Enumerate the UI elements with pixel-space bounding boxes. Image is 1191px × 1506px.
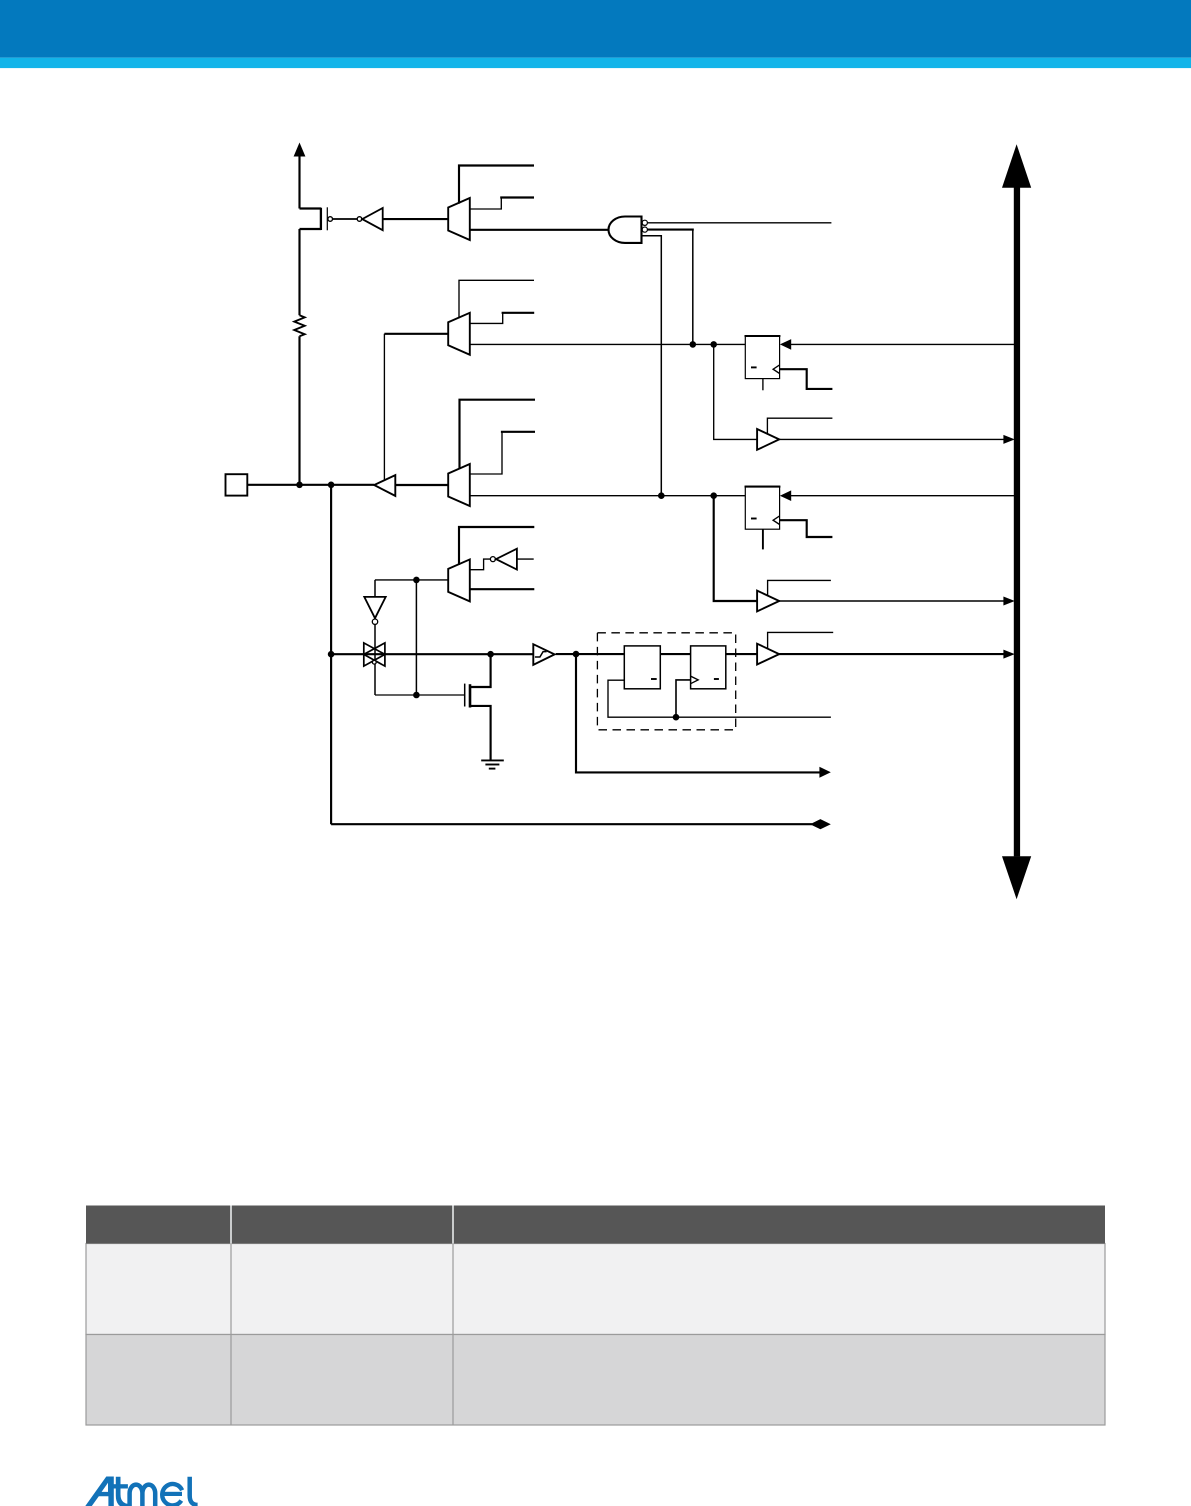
Atmel logo letter l: [190, 1477, 198, 1505]
transistor Q2 NMOS gate bar: [464, 684, 466, 707]
mux M3 input A step wire: [470, 432, 502, 474]
transistor Q1 gate bubble: [328, 217, 333, 222]
wire feedback up to D2 clock: [676, 680, 691, 717]
node junction row to buffer2: [710, 492, 717, 499]
wire row to buffer U8: [714, 496, 757, 601]
mux M1 select wire: [459, 166, 534, 204]
node junction NAND2-row: [690, 341, 697, 348]
wire bottom bidirectional line: [331, 823, 812, 825]
transistor Q1 PMOS drain arm: [300, 228, 322, 230]
analog switch SW1 right triangle: [364, 643, 385, 666]
wire FF1 D to bus: [791, 343, 1015, 345]
transistor Q1 PMOS pull-up source arm: [300, 207, 322, 209]
flip-flop FF2 bottom stub: [762, 529, 764, 549]
wire buffer U8 to bus: [779, 600, 1005, 602]
NAND input 3 wire: [642, 236, 662, 496]
VDD power arrow: [294, 143, 306, 209]
buffer U7 enable wire: [767, 418, 832, 434]
mux M2 input A step wire: [470, 313, 503, 324]
flip-flop D2 Q-bar dash: [714, 678, 719, 680]
flip-flop D2 box: [691, 646, 726, 689]
inverter U4 triangle: [496, 549, 517, 570]
table header divider 1: [230, 1206, 232, 1244]
mux M3: [448, 464, 470, 506]
flip-flop FF1 D input arrow: [780, 339, 791, 350]
inverter U5 output bubble: [372, 619, 377, 624]
node pad-resistor junction: [296, 482, 303, 489]
inverter U1 triangle: [362, 208, 383, 230]
flip-flop FF2 Q-bar dash: [751, 518, 757, 520]
table row 2 gray: [86, 1335, 1105, 1426]
wire buffer U9 to bus: [779, 653, 1005, 655]
NAND input bubble 2: [642, 227, 647, 232]
latch L1 Q-bar dash: [651, 678, 657, 680]
node junction NAND3-row: [658, 492, 665, 499]
mux M1 input A step wire: [470, 198, 502, 210]
schmitt trigger U6: [533, 644, 554, 665]
wire FF2 D to bus: [791, 495, 1015, 497]
mux M3 select wire: [460, 400, 536, 469]
Atmel logo letter A: [85, 1477, 114, 1506]
node gate wire junction: [413, 692, 420, 699]
NAND input bubble 1: [642, 220, 647, 225]
transistor Q2 NMOS channel bar: [469, 684, 472, 707]
flip-flop FF2 clock chevron: [773, 516, 780, 525]
header dark blue band: [0, 0, 1191, 58]
Atmel logo letter m: [130, 1485, 156, 1506]
diamond bidirectional terminal: [810, 819, 831, 829]
analog switch SW1 (bowtie) left triangle: [364, 643, 385, 666]
arrow PIO_PDSR output: [819, 767, 830, 778]
transistor Q2 source arm: [470, 706, 491, 760]
wire tap down to NMOS gate: [415, 580, 417, 695]
inverter U1 output bubble: [357, 217, 362, 222]
transistor Q1 PMOS channel bar: [320, 208, 322, 230]
table header band: [86, 1206, 1105, 1244]
NAND gate U2 (mirrored, bubbled inputs): [609, 217, 642, 243]
latch L1 box: [624, 646, 660, 689]
resistor R1 pull-up: [294, 315, 304, 336]
transistor Q1 PMOS gate bar: [326, 207, 328, 230]
node feedback to D2 clock: [673, 714, 680, 721]
mux M4: [448, 559, 470, 601]
arrow U9 to bus: [1003, 650, 1014, 659]
node input row NMOS junction: [487, 651, 494, 658]
mux M2 output wire to driver enable: [384, 333, 448, 335]
flip-flop FF1 Q-bar dash: [751, 366, 757, 368]
flip-flop FF2 box: [745, 486, 779, 529]
mux M4 input B stub: [470, 588, 535, 590]
table row 1 light: [86, 1244, 1105, 1335]
ground: [481, 760, 504, 768]
buffer U9 enable wire: [768, 632, 834, 649]
buffer U8 enable wire: [768, 580, 831, 596]
I/O pad: [226, 474, 248, 495]
wire row PIO_OSR upper (mux M2 to FF1 and bus): [470, 343, 746, 345]
NAND input 2 wire: [647, 229, 693, 231]
wire NAND output to mux M1: [470, 229, 610, 231]
wire D2 output to buffer U9: [726, 653, 757, 655]
mux M2: [448, 313, 470, 355]
wire row PIO_ODSR (mux M3 row to FF2 and bus): [470, 495, 746, 497]
flip-flop FF1 bottom stub: [762, 379, 764, 391]
NAND input 1 wire: [647, 222, 831, 224]
flip-flop FF2 D input arrow: [780, 490, 791, 501]
wire buffer U7 to bus: [779, 438, 1005, 440]
mux M2 select wire: [459, 280, 534, 318]
analog switch SW1 gate bubble: [372, 660, 376, 664]
node junction row to buffer1: [710, 341, 717, 348]
wire gate bubble to inverter: [333, 218, 358, 220]
wire M2 output down to output buffer enable: [383, 334, 385, 481]
header cyan stripe: [0, 58, 1191, 68]
data bus vertical bar: [1014, 187, 1020, 857]
wire inverter U1 to mux M1: [383, 218, 449, 220]
buffer U7: [757, 429, 779, 450]
table header divider 2: [452, 1206, 454, 1244]
wire Q1 drain to resistor: [298, 229, 300, 315]
wire U5 bubble through switch to gate wire: [374, 624, 376, 695]
mux M4 output wire: [375, 579, 448, 581]
wire U4 output to mux M4 input: [470, 559, 491, 570]
inverter U5 (pointing down): [364, 597, 385, 618]
wire schmitt output to glitch filter: [556, 653, 625, 655]
mux M1: [448, 198, 470, 240]
glitch filter dashed box: [597, 633, 735, 730]
wire M4 output down to inverter U5: [374, 580, 376, 597]
wire pad node down left rail: [330, 485, 332, 824]
node pad-input junction: [328, 482, 335, 489]
node M4 output tap: [413, 577, 420, 584]
flip-flop FF2 clock wire: [780, 520, 833, 537]
flip-flop FF1 clock chevron: [773, 365, 780, 374]
mux M3 output wire to driver buffer: [395, 484, 448, 486]
mux M4 select wire: [459, 527, 534, 565]
node input row left junction: [328, 651, 335, 658]
Atmel logo letter e: [162, 1484, 182, 1505]
buffer U8: [757, 591, 779, 612]
flip-flop FF1 clock wire: [780, 369, 833, 389]
data bus bottom arrowhead: [1002, 856, 1031, 899]
flip-flop D2 clock chevron: [691, 676, 699, 684]
transistor Q2 drain arm: [470, 654, 491, 687]
table column divider 2 (body): [452, 1244, 454, 1426]
schmitt hysteresis glyph: [535, 652, 547, 657]
mux M3 input A signal stub: [501, 431, 535, 433]
inverter U4 output bubble: [490, 557, 495, 562]
data bus top arrowhead: [1002, 144, 1031, 188]
Atmel logo letter t: [116, 1477, 128, 1506]
wire L1 feedback loop: [608, 680, 831, 717]
arrow U8 to bus: [1003, 597, 1014, 606]
buffer U9: [757, 644, 779, 665]
inverter U4 input stub: [517, 558, 534, 560]
mux M1 input A signal stub: [500, 196, 534, 198]
node schmitt output junction: [573, 651, 580, 658]
output driver buffer U3: [374, 475, 395, 496]
mux M2 input A signal stub: [502, 312, 535, 314]
wire resistor to pad node: [298, 336, 300, 485]
wire input row (pad rail to schmitt): [331, 653, 533, 655]
flip-flop FF1 box: [745, 336, 779, 379]
pad wire: [247, 484, 374, 486]
arrow U7 to bus: [1003, 435, 1014, 444]
wire NMOS gate horizontal: [375, 694, 465, 696]
wire schmitt output down: [576, 654, 820, 772]
wire between L1 and FF D2: [660, 653, 690, 655]
wire row to buffer U7: [714, 344, 757, 439]
table column divider 1 (body): [230, 1244, 232, 1426]
